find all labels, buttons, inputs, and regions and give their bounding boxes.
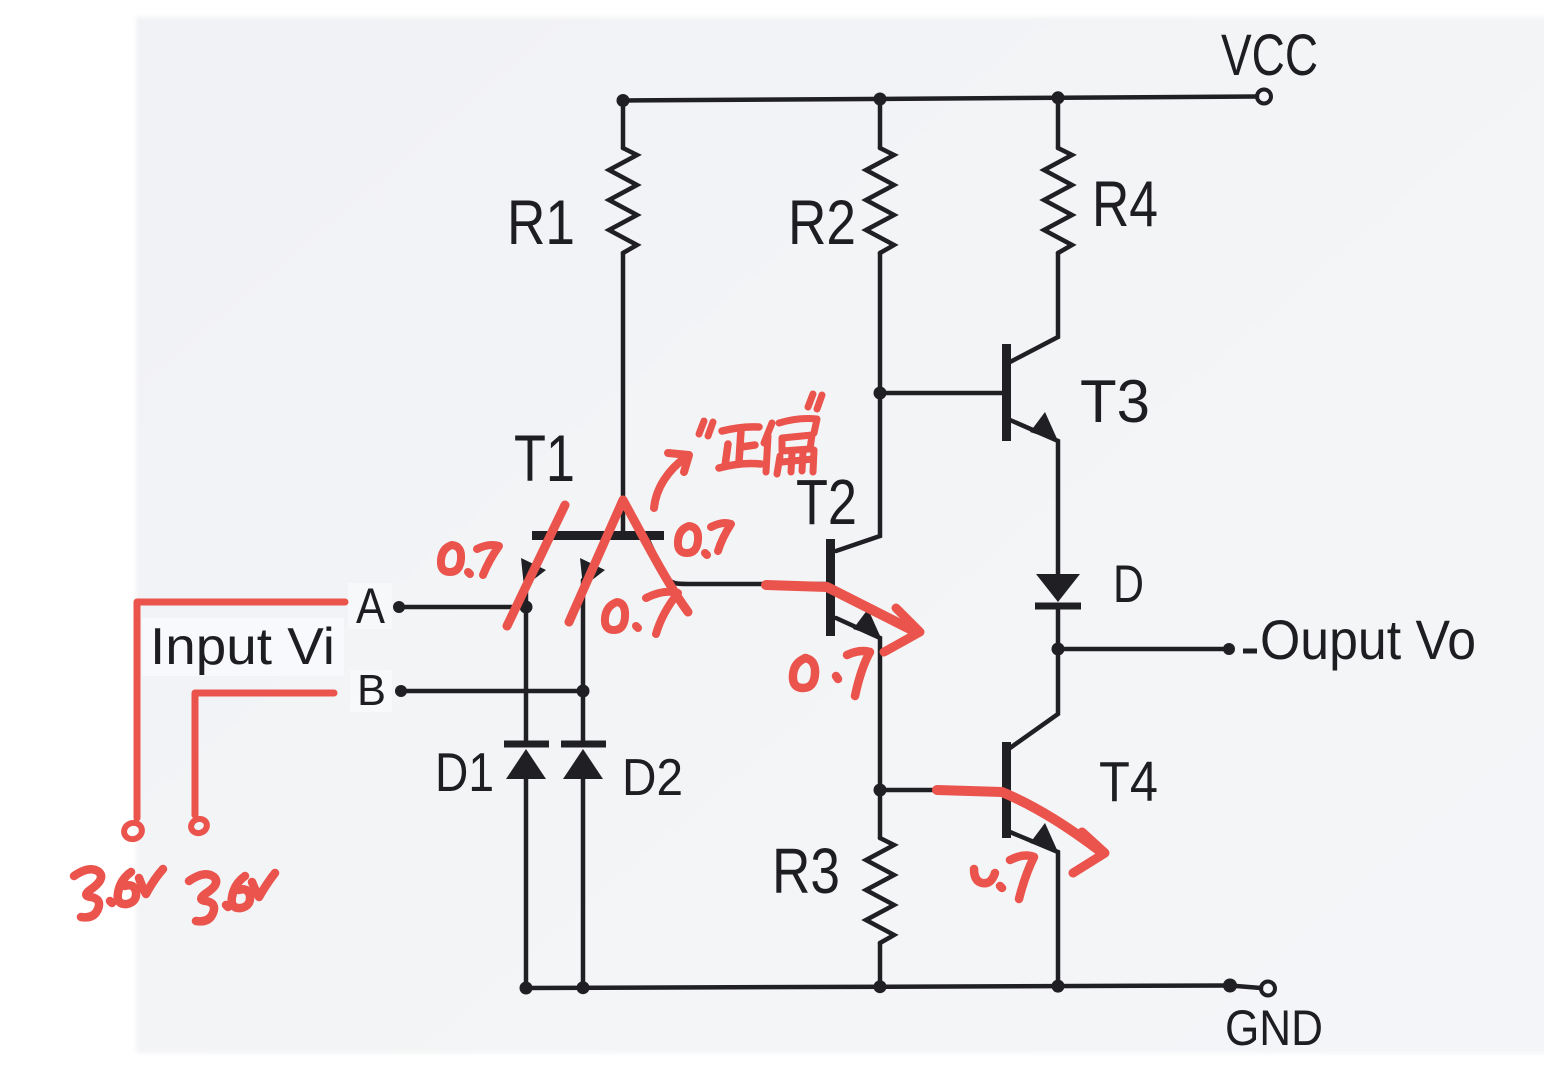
red 0.7 T2 [793, 651, 870, 696]
red slash stroke left [507, 505, 565, 626]
svg-text:R3: R3 [772, 835, 840, 907]
wire T2 collector [836, 393, 880, 551]
svg-text:R4: R4 [1092, 167, 1158, 240]
wire node E2 to T4 base [880, 788, 1002, 793]
svg-text:B: B [357, 666, 386, 715]
wire T3 emitter to diode D [1010, 420, 1058, 575]
wire T4 collector to output node [1010, 649, 1058, 748]
red curved arrow to 正偏 [654, 457, 686, 508]
red caret stroke [569, 500, 688, 622]
svg-text:Input Vi: Input Vi [150, 618, 335, 676]
node A-emitter junction [520, 601, 533, 614]
svg-text:D: D [1113, 555, 1144, 614]
transistor T1 emitter arrow 2 [580, 558, 605, 587]
transistor T4 emitter arrow [1030, 823, 1058, 852]
wire ground rail [526, 986, 1230, 989]
wire R1 top [621, 101, 626, 149]
node input A terminal dot [393, 601, 405, 613]
svg-text:D1: D1 [435, 741, 494, 803]
diode D triangle [1036, 574, 1080, 602]
diode D2 triangle [563, 749, 603, 779]
wire T4 emitter to ground [1010, 832, 1058, 987]
wire R2 top [878, 99, 883, 148]
wire T1 emitter 1 [524, 580, 529, 744]
resistor R4 [1044, 148, 1072, 253]
wire input B [401, 689, 583, 694]
wire GND terminal stub [1230, 986, 1261, 989]
node GND rail end dot [1223, 979, 1237, 993]
transistor T1 (multi-emitter) base bar [532, 531, 664, 540]
node output junction [1052, 643, 1065, 656]
transistor T2 base bar [826, 539, 835, 636]
wire R4 bottom to T3 collector [1010, 253, 1058, 362]
node R4-VCC junction [1052, 91, 1065, 104]
wire diode D to output node [1056, 607, 1061, 649]
wire R4 top [1056, 98, 1061, 148]
wire R3 bottom [878, 943, 883, 987]
diode D1 cathode bar [504, 741, 549, 748]
resistor R3 [866, 838, 894, 943]
diode D1 triangle [506, 749, 546, 779]
red quote open [699, 421, 713, 436]
wire red input A probe [137, 602, 345, 818]
node E2 junction [874, 784, 887, 797]
wire T1 collector to T2 base [648, 540, 826, 584]
node output terminal dot [1223, 643, 1235, 655]
red annotations [74, 394, 1105, 921]
transistor T3 base bar [1002, 344, 1011, 441]
red 3.6V label 2 [189, 873, 275, 921]
svg-text:Ouput Vo: Ouput Vo [1260, 608, 1476, 671]
wire red input B probe [195, 693, 334, 815]
resistor R1 [609, 148, 637, 253]
diode D cathode bar [1035, 603, 1081, 610]
resistor R2 [866, 148, 894, 253]
node B-emitter junction [577, 685, 590, 698]
red 0.7 left [441, 545, 499, 575]
red arrow T2 [766, 585, 912, 630]
svg-text:GND: GND [1225, 1000, 1323, 1056]
wire output node to terminal [1058, 647, 1229, 652]
label Ouput Vo dash [1243, 649, 1257, 654]
svg-text:VCC: VCC [1221, 23, 1318, 88]
transistor T3 emitter arrow [1030, 412, 1058, 441]
red quote close [808, 394, 822, 409]
transistor T2 emitter arrow [853, 609, 881, 638]
transistor T4 base bar [1002, 742, 1011, 838]
VCC terminal circle [1257, 90, 1271, 104]
red probe A circle [122, 820, 144, 841]
wire T1 emitter 2 [581, 580, 586, 744]
red arrow T4 [937, 790, 1100, 851]
red hanzi 偏 [764, 419, 817, 475]
svg-text:R1: R1 [507, 188, 575, 258]
svg-text:A: A [356, 578, 386, 634]
svg-text:D2: D2 [622, 749, 683, 807]
red probe B circle [189, 817, 209, 836]
wire R1 bottom to T1 collector [621, 253, 626, 533]
node R1-VCC junction [617, 94, 630, 107]
wire R2 bottom to node C2 [878, 253, 883, 393]
wire R3 top [878, 790, 883, 838]
svg-text:T3: T3 [1080, 368, 1150, 435]
red 3.6V label 1 [74, 869, 163, 917]
svg-text:T1: T1 [514, 421, 575, 495]
node R2-VCC junction [874, 93, 887, 106]
svg-text:T4: T4 [1099, 750, 1158, 814]
wire T2 emitter to node E2 [836, 618, 880, 790]
transistor T1 emitter arrow 1 [521, 558, 546, 587]
halo behind labels [142, 618, 344, 676]
svg-text:R2: R2 [788, 188, 856, 258]
wire node C2 to T3 base [880, 391, 1002, 396]
wire D1 bottom to ground [524, 779, 529, 988]
node C2 junction [874, 387, 887, 400]
node R3-ground junction [874, 980, 887, 993]
red 0.7 middle [605, 592, 678, 634]
node D2-ground junction [577, 981, 590, 994]
wire input A [399, 605, 526, 610]
wire D2 bottom to ground [581, 779, 586, 988]
node T4-ground junction [1052, 980, 1065, 993]
red 0.7 right [678, 523, 731, 555]
red 0.7 T4 [974, 856, 1034, 899]
node input B terminal dot [395, 685, 407, 697]
node D1-ground junction [520, 982, 533, 995]
svg-text:T2: T2 [796, 466, 857, 538]
GND terminal circle [1261, 982, 1275, 996]
wire VCC top rail [623, 97, 1257, 101]
diode D2 cathode bar [561, 741, 606, 748]
red hanzi 正 [719, 427, 761, 468]
